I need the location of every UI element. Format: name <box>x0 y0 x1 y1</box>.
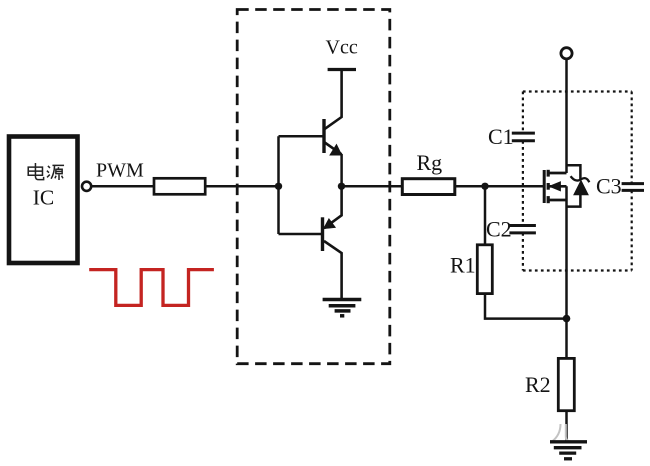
wire: R2 to ground <box>565 411 568 442</box>
svg-text:C3: C3 <box>596 174 622 199</box>
MOSFET Q3 gate bar <box>543 170 546 203</box>
driver stage dashed box <box>237 10 390 364</box>
ground (output) <box>550 442 587 459</box>
body diode D1 <box>567 165 590 206</box>
resistor R2 <box>558 319 574 411</box>
ground (driver) <box>323 300 362 316</box>
wire: output node to Rg <box>342 185 403 188</box>
svg-text:Rg: Rg <box>417 150 443 175</box>
wire: base bus vertical <box>277 136 280 234</box>
wire: terminal to drain tap <box>565 59 568 173</box>
input series resistor (unlabeled) <box>154 178 205 194</box>
wire: gate node down to R1 <box>484 186 487 244</box>
svg-text:Vcc: Vcc <box>326 37 358 59</box>
capacitor C1 <box>512 133 535 141</box>
transistor Q2 (PNP lower) base bar <box>321 217 324 251</box>
drain terminal <box>561 48 572 59</box>
wire: Q1 emitter to output node <box>340 154 343 186</box>
MOSFET Q3 body arrow <box>548 182 566 191</box>
wire: R1 to source node <box>485 294 567 319</box>
wire: terminal to input resistor <box>91 185 153 188</box>
MOSFET Q3 channel segments <box>547 170 550 203</box>
wire: lower base lead <box>279 233 323 236</box>
svg-text:C2: C2 <box>486 217 512 242</box>
capacitor C3 <box>622 184 644 191</box>
MOSFET Q3 drain tap <box>548 172 566 175</box>
transistor Q1 emitter with arrow <box>324 142 342 155</box>
node: gate junction <box>481 183 488 190</box>
transistor Q2 emitter with arrow <box>323 186 341 229</box>
watermark <box>552 424 574 442</box>
resistor R1 <box>477 245 492 294</box>
transistor Q1 collector <box>324 70 342 130</box>
power IC U1 box <box>9 137 78 264</box>
PWM output terminal <box>82 182 91 191</box>
svg-text:PWM: PWM <box>96 160 144 182</box>
capacitor C2 <box>509 226 536 233</box>
wire: upper base lead <box>279 135 325 138</box>
parasitic capacitance dotted box <box>523 92 632 271</box>
MOSFET Q3 source tap <box>548 199 566 202</box>
wire: input resistor to driver input node <box>207 185 279 188</box>
transistor Q1 (NPN upper) base bar <box>322 119 325 153</box>
svg-text:R1: R1 <box>450 253 476 278</box>
PWM square waveform (red) <box>89 270 214 306</box>
node: driver output junction <box>338 183 345 190</box>
wire: body/source vertical down to node <box>565 186 568 318</box>
svg-text:C1: C1 <box>488 124 514 149</box>
svg-text:IC: IC <box>33 186 55 210</box>
svg-text:R2: R2 <box>525 372 551 397</box>
wire: Rg to gate <box>456 185 544 188</box>
Vcc rail <box>328 68 356 71</box>
label 电源 (drawn strokes) <box>28 163 64 180</box>
node: driver input junction <box>275 183 282 190</box>
node: source junction <box>563 315 571 323</box>
transistor Q2 collector <box>324 241 342 300</box>
resistor Rg <box>402 179 455 195</box>
